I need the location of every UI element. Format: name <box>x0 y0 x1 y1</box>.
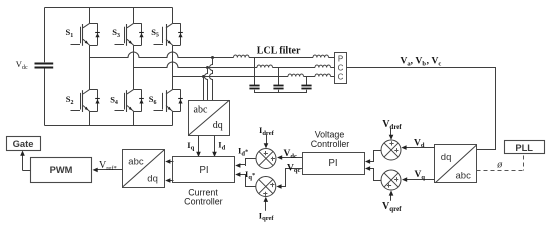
svg-text:abc: abc <box>456 171 472 182</box>
svg-text:C: C <box>338 63 344 72</box>
svg-text:dq: dq <box>147 174 158 185</box>
svg-text:abc: abc <box>128 157 144 168</box>
svg-text:PI: PI <box>328 158 337 169</box>
svg-text:C: C <box>338 72 344 81</box>
svg-text:abc: abc <box>194 105 208 116</box>
svg-text:Controller: Controller <box>311 139 350 149</box>
svg-text:Gate: Gate <box>13 138 34 149</box>
svg-text:PWM: PWM <box>50 165 73 175</box>
svg-text:dq: dq <box>441 152 452 163</box>
svg-text:PI: PI <box>199 165 208 176</box>
svg-text:Controller: Controller <box>184 197 223 207</box>
svg-text:LCL filter: LCL filter <box>257 45 301 56</box>
svg-text:ø: ø <box>496 159 503 170</box>
svg-text:Voltage: Voltage <box>315 129 345 139</box>
svg-text:P: P <box>338 54 343 63</box>
svg-text:PLL: PLL <box>515 143 533 153</box>
svg-text:dq: dq <box>213 120 223 131</box>
